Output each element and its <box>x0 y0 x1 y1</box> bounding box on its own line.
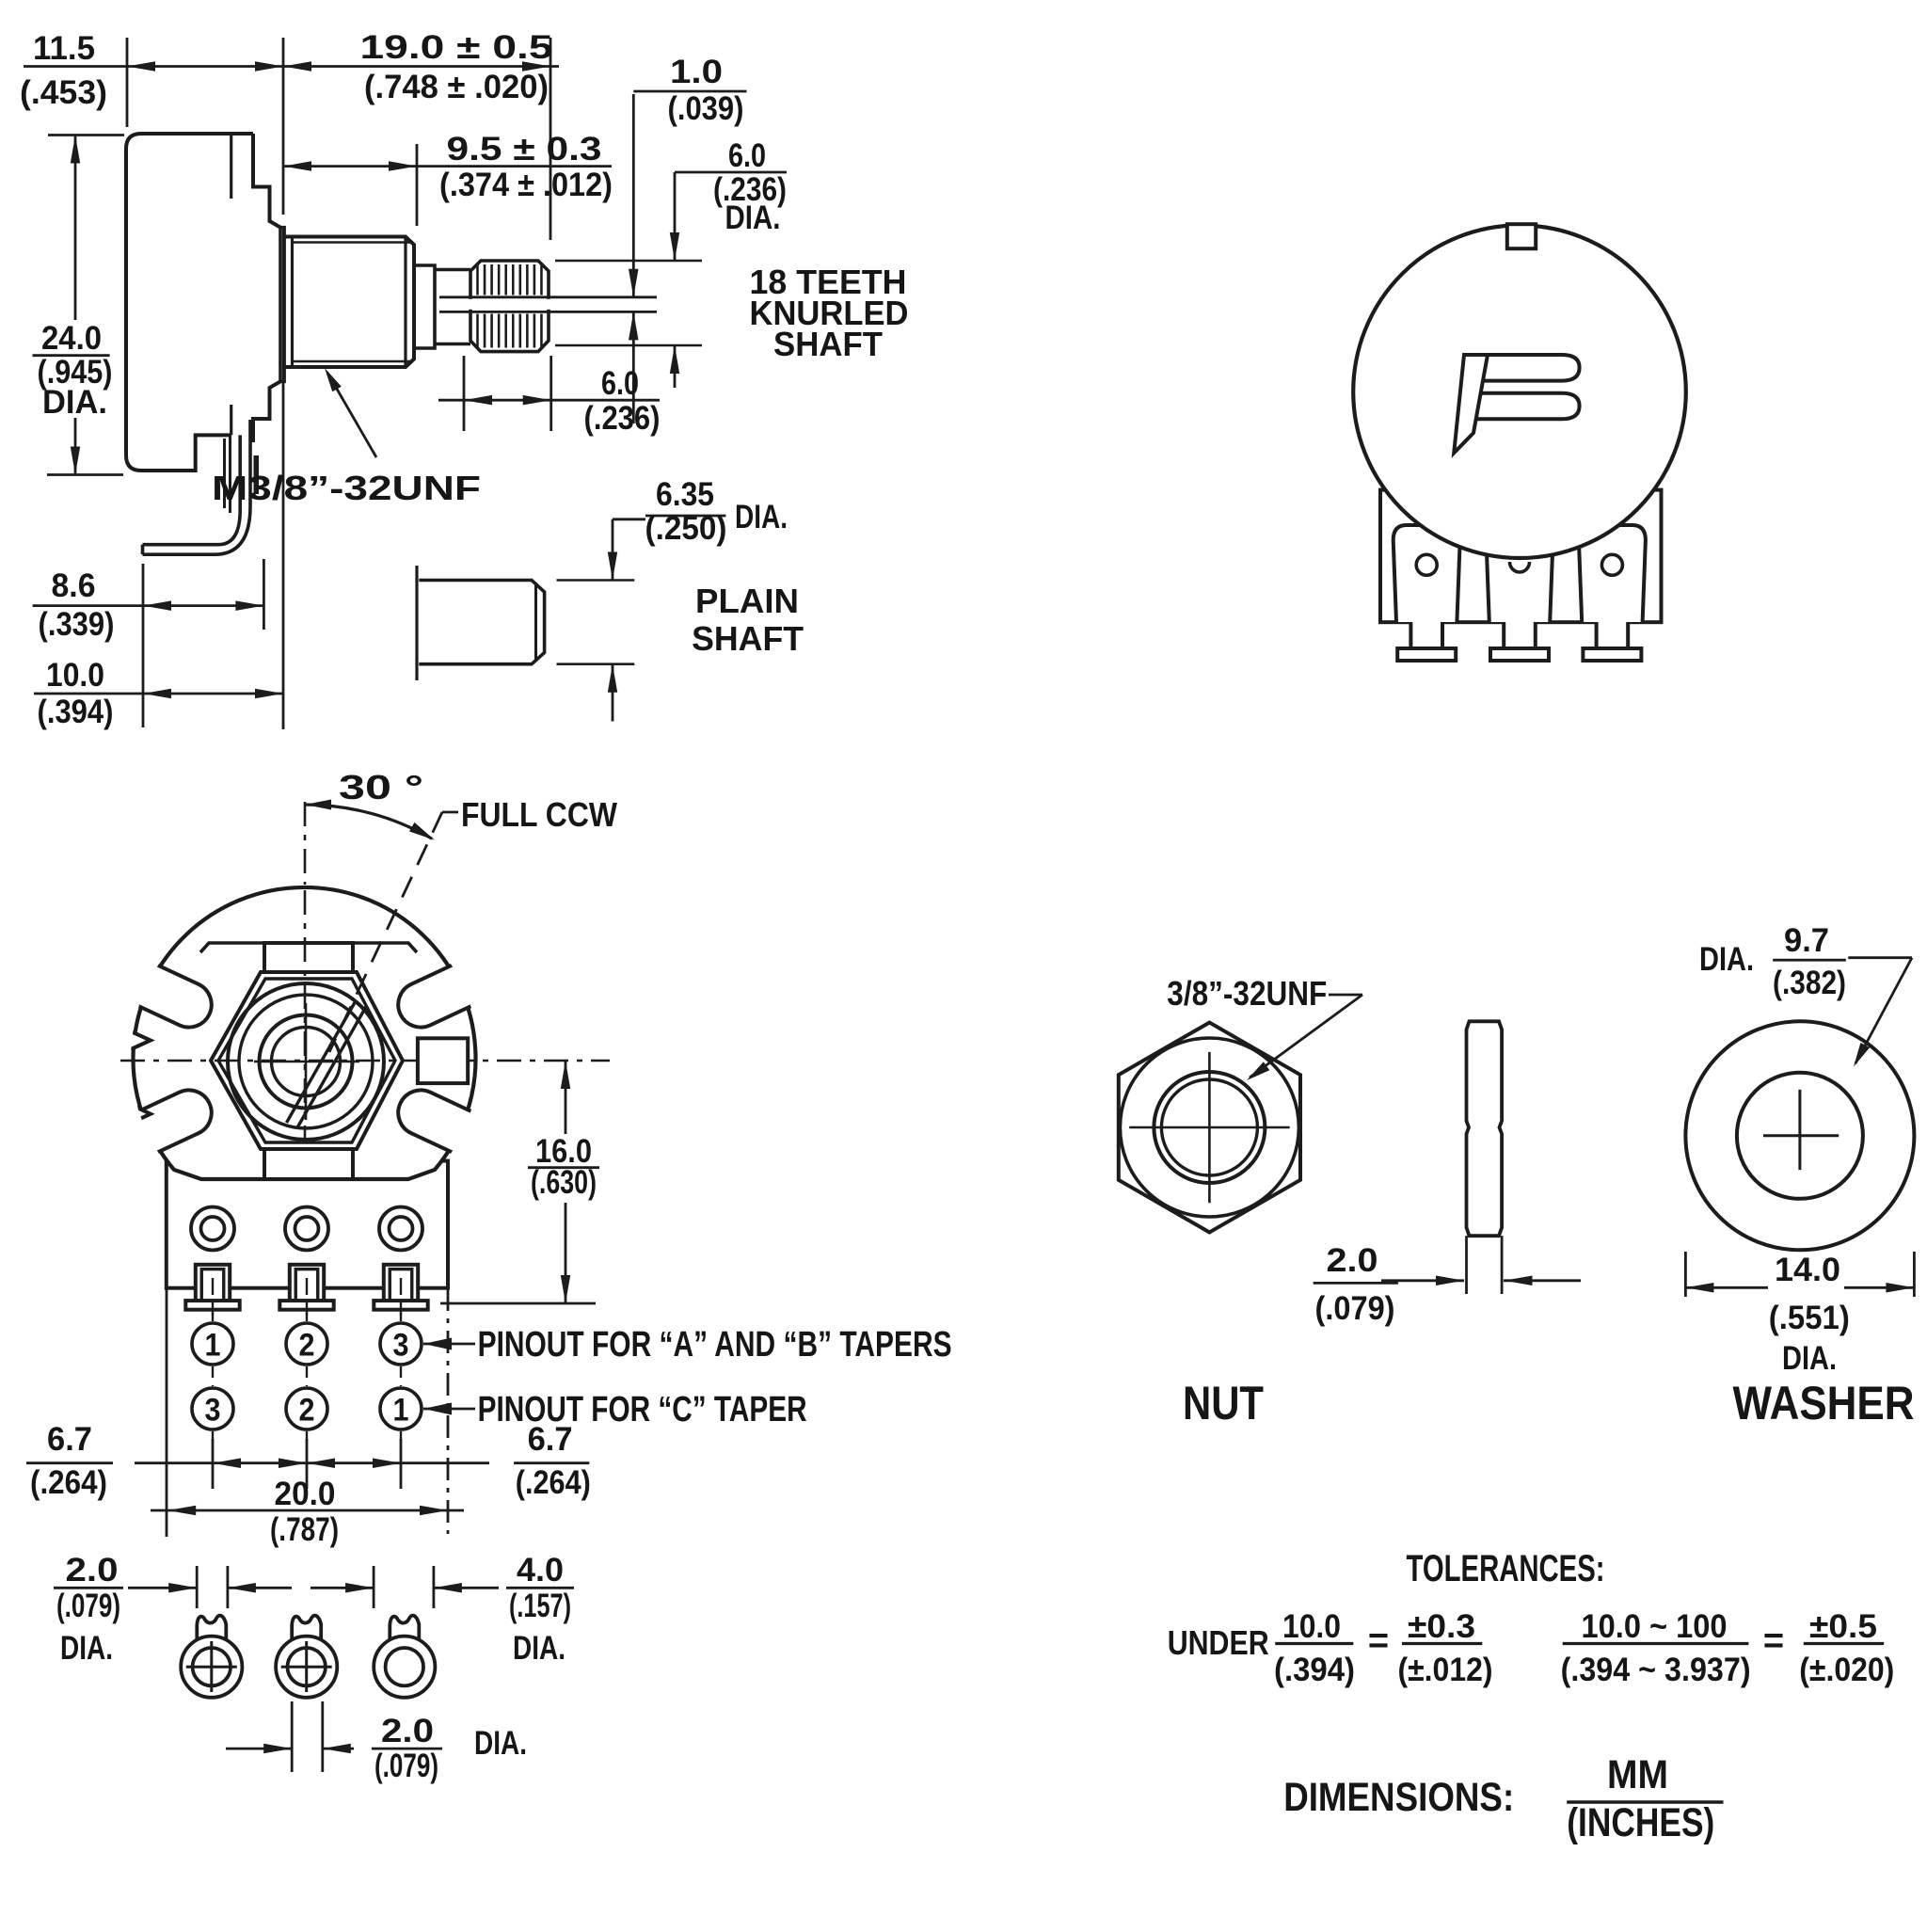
svg-text:=: = <box>1763 1621 1784 1661</box>
svg-text:DIA.: DIA. <box>474 1725 527 1762</box>
svg-text:PLAIN: PLAIN <box>695 582 799 620</box>
svg-text:(.264): (.264) <box>30 1464 107 1501</box>
svg-text:11.5: 11.5 <box>33 30 95 67</box>
svg-text:6.0: 6.0 <box>728 137 766 174</box>
svg-text:(.374 ± .012): (.374 ± .012) <box>439 167 613 203</box>
svg-text:8.6: 8.6 <box>52 567 96 604</box>
svg-text:=: = <box>1368 1621 1389 1661</box>
svg-text:±0.5: ±0.5 <box>1809 1608 1877 1645</box>
svg-text:6.0: 6.0 <box>601 365 639 402</box>
svg-text:(±.020): (±.020) <box>1799 1652 1894 1688</box>
svg-text:(.039): (.039) <box>668 90 744 127</box>
svg-text:9.5 ± 0.3: 9.5 ± 0.3 <box>447 131 602 168</box>
svg-text:14.0: 14.0 <box>1775 1252 1840 1288</box>
svg-text:(.551): (.551) <box>1769 1300 1850 1336</box>
svg-text:10.0: 10.0 <box>1282 1608 1341 1645</box>
svg-text:(.630): (.630) <box>531 1164 597 1201</box>
svg-text:SHAFT: SHAFT <box>773 325 883 363</box>
svg-text:NUT: NUT <box>1183 1377 1264 1429</box>
svg-text:(±.012): (±.012) <box>1398 1652 1493 1688</box>
svg-text:DIA.: DIA. <box>513 1630 565 1667</box>
svg-text:(.339): (.339) <box>39 606 115 643</box>
svg-text:2: 2 <box>299 1393 315 1429</box>
svg-text:±0.3: ±0.3 <box>1408 1608 1475 1645</box>
svg-text:30 °: 30 ° <box>339 768 423 806</box>
svg-text:(.748 ± .020): (.748 ± .020) <box>364 69 549 105</box>
svg-text:(.236): (.236) <box>584 400 661 437</box>
svg-text:9.7: 9.7 <box>1784 922 1829 959</box>
svg-text:(.079): (.079) <box>374 1748 438 1784</box>
svg-text:(INCHES): (INCHES) <box>1567 1800 1714 1845</box>
svg-text:TOLERANCES:: TOLERANCES: <box>1407 1548 1605 1589</box>
svg-text:(.382): (.382) <box>1773 965 1846 1001</box>
svg-text:(.264): (.264) <box>516 1464 591 1501</box>
svg-text:3: 3 <box>205 1393 221 1429</box>
svg-text:6.35: 6.35 <box>656 476 714 513</box>
svg-text:1: 1 <box>205 1328 221 1364</box>
svg-text:2.0: 2.0 <box>1327 1242 1378 1279</box>
svg-text:2.0: 2.0 <box>381 1713 434 1749</box>
svg-text:DIA.: DIA. <box>1699 941 1754 978</box>
svg-text:MM: MM <box>1607 1752 1668 1797</box>
svg-text:10.0 ~ 100: 10.0 ~ 100 <box>1582 1608 1728 1645</box>
svg-text:DIA.: DIA. <box>725 200 781 236</box>
svg-text:UNDER: UNDER <box>1168 1623 1269 1662</box>
svg-text:DIA.: DIA. <box>42 384 107 421</box>
svg-text:6.7: 6.7 <box>47 1421 92 1458</box>
svg-text:24.0: 24.0 <box>41 320 102 357</box>
svg-text:2.0: 2.0 <box>66 1552 119 1589</box>
svg-text:FULL CCW: FULL CCW <box>461 795 617 834</box>
svg-text:10.0: 10.0 <box>46 657 104 694</box>
svg-text:4.0: 4.0 <box>517 1552 564 1589</box>
svg-text:3/8”-32UNF: 3/8”-32UNF <box>1167 974 1327 1013</box>
svg-text:20.0: 20.0 <box>275 1476 336 1512</box>
svg-text:1.0: 1.0 <box>670 54 723 90</box>
svg-text:(.079): (.079) <box>56 1588 120 1624</box>
svg-text:3: 3 <box>393 1328 409 1364</box>
svg-text:1: 1 <box>393 1393 409 1429</box>
svg-text:PINOUT FOR “A” AND “B” TAPERS: PINOUT FOR “A” AND “B” TAPERS <box>478 1325 952 1365</box>
svg-text:DIMENSIONS:: DIMENSIONS: <box>1283 1775 1514 1820</box>
svg-text:(.157): (.157) <box>509 1588 571 1624</box>
svg-text:DIA.: DIA. <box>60 1630 113 1667</box>
svg-text:SHAFT: SHAFT <box>692 619 804 658</box>
svg-text:WASHER: WASHER <box>1733 1377 1915 1429</box>
svg-text:DIA.: DIA. <box>735 499 788 535</box>
svg-text:6.7: 6.7 <box>528 1421 573 1458</box>
svg-text:(.394): (.394) <box>1274 1652 1355 1688</box>
svg-text:DIA.: DIA. <box>1782 1340 1837 1377</box>
svg-text:(.787): (.787) <box>270 1511 339 1548</box>
svg-text:(.394): (.394) <box>38 694 114 730</box>
svg-text:(.250): (.250) <box>645 510 727 547</box>
svg-text:(.453): (.453) <box>20 74 107 111</box>
svg-text:M3/8”-32UNF: M3/8”-32UNF <box>212 469 481 507</box>
svg-text:(.079): (.079) <box>1315 1290 1395 1327</box>
svg-text:2: 2 <box>299 1328 315 1364</box>
svg-text:19.0 ± 0.5: 19.0 ± 0.5 <box>360 29 553 66</box>
svg-text:(.394 ~ 3.937): (.394 ~ 3.937) <box>1561 1652 1751 1688</box>
